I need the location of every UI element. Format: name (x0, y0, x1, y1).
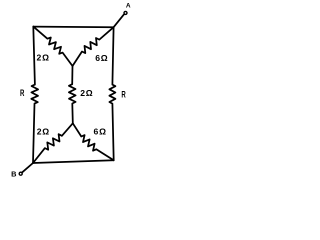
svg-text:6Ω: 6Ω (95, 53, 108, 63)
svg-text:2Ω: 2Ω (37, 53, 50, 63)
svg-text:6Ω: 6Ω (94, 127, 107, 137)
svg-text:R: R (20, 88, 25, 98)
svg-text:2Ω: 2Ω (37, 127, 50, 137)
svg-text:A: A (126, 3, 131, 10)
svg-text:2Ω: 2Ω (80, 88, 93, 98)
svg-text:B: B (11, 169, 17, 178)
svg-text:R: R (121, 89, 126, 99)
